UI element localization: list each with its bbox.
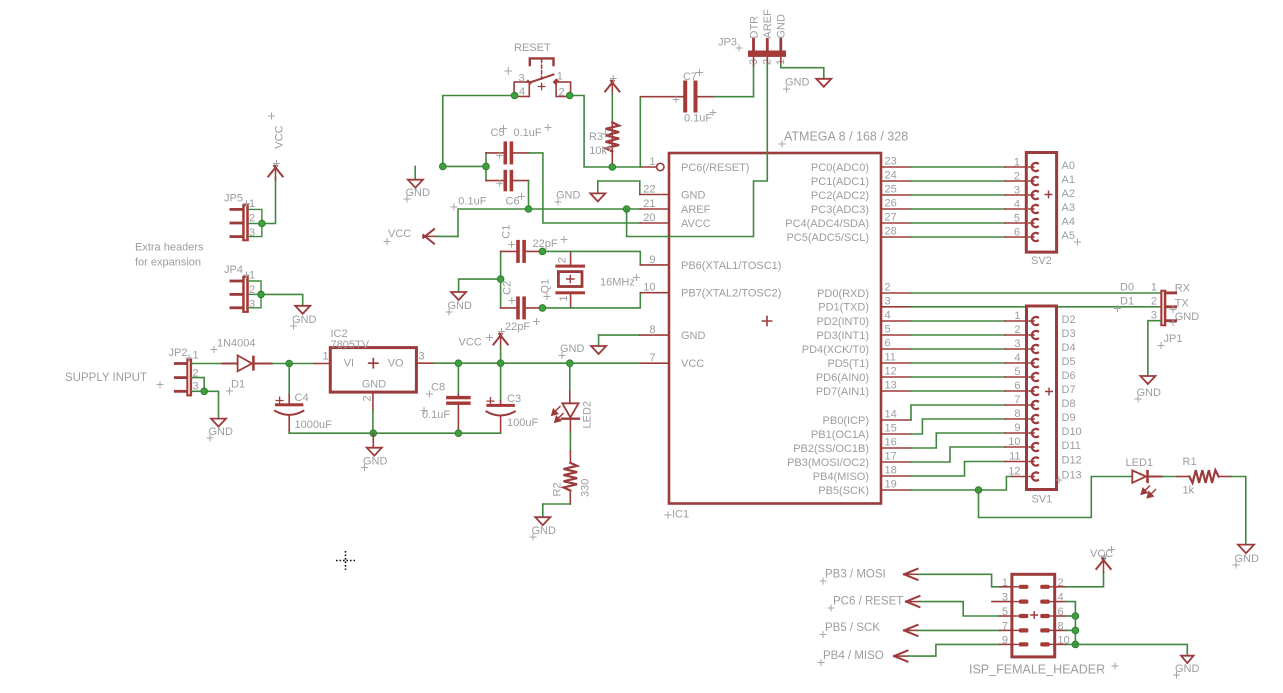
- svg-text:GND: GND: [560, 343, 585, 355]
- svg-text:PB3(MOSI/OC2): PB3(MOSI/OC2): [787, 457, 869, 469]
- svg-text:R1: R1: [1183, 456, 1197, 468]
- svg-text:Q1: Q1: [540, 279, 552, 294]
- svg-text:JP4: JP4: [224, 264, 243, 276]
- svg-text:6: 6: [1014, 227, 1020, 239]
- svg-text:3: 3: [1151, 310, 1157, 322]
- svg-text:PB4 / MISO: PB4 / MISO: [823, 650, 884, 662]
- svg-text:16: 16: [885, 437, 897, 449]
- svg-text:LED1: LED1: [1126, 457, 1154, 469]
- svg-text:25: 25: [885, 184, 897, 196]
- svg-text:VCC: VCC: [388, 228, 411, 240]
- svg-text:11: 11: [885, 352, 896, 364]
- svg-text:PC3(ADC3): PC3(ADC3): [811, 204, 869, 216]
- svg-text:20: 20: [643, 212, 655, 224]
- svg-text:PB4(MISO): PB4(MISO): [813, 471, 869, 483]
- svg-text:GND: GND: [776, 14, 788, 39]
- svg-text:14: 14: [885, 409, 897, 421]
- svg-text:SUPPLY INPUT: SUPPLY INPUT: [65, 372, 147, 384]
- svg-text:12: 12: [1008, 466, 1020, 478]
- svg-text:C6: C6: [506, 196, 520, 208]
- svg-text:ATMEGA 8 / 168 / 328: ATMEGA 8 / 168 / 328: [784, 130, 908, 144]
- svg-text:15: 15: [885, 423, 897, 435]
- svg-text:26: 26: [885, 198, 897, 210]
- svg-text:R2: R2: [552, 482, 564, 496]
- svg-text:SV2: SV2: [1031, 255, 1052, 267]
- svg-text:PB0(ICP): PB0(ICP): [823, 415, 869, 427]
- svg-text:C7: C7: [683, 71, 697, 83]
- svg-text:SV1: SV1: [1032, 494, 1053, 506]
- svg-text:6: 6: [1014, 380, 1020, 392]
- svg-text:1: 1: [1151, 282, 1157, 294]
- svg-text:A5: A5: [1062, 230, 1075, 242]
- svg-text:VCC: VCC: [459, 337, 482, 349]
- svg-text:GND: GND: [448, 300, 473, 312]
- svg-text:GND: GND: [292, 314, 317, 326]
- svg-text:PD5(T1): PD5(T1): [827, 358, 869, 370]
- svg-text:1: 1: [558, 295, 570, 301]
- svg-text:17: 17: [885, 451, 897, 463]
- svg-text:5: 5: [885, 324, 891, 336]
- svg-text:JP2: JP2: [169, 347, 188, 359]
- svg-text:PB5(SCK): PB5(SCK): [818, 485, 869, 497]
- svg-text:VO: VO: [388, 358, 404, 370]
- svg-text:A4: A4: [1062, 216, 1075, 228]
- svg-text:1000uF: 1000uF: [295, 419, 333, 431]
- svg-text:D1: D1: [231, 379, 245, 391]
- svg-text:22pF: 22pF: [533, 238, 558, 250]
- svg-text:GND: GND: [1235, 553, 1260, 565]
- svg-text:16MHz: 16MHz: [600, 277, 635, 289]
- svg-text:PC6(/RESET): PC6(/RESET): [681, 162, 749, 174]
- svg-text:PD1(TXD): PD1(TXD): [818, 302, 869, 314]
- svg-text:ISP_FEMALE_HEADER: ISP_FEMALE_HEADER: [969, 663, 1105, 677]
- svg-text:LED2: LED2: [582, 401, 594, 429]
- svg-text:PB1(OC1A): PB1(OC1A): [811, 429, 869, 441]
- svg-text:21: 21: [643, 198, 655, 210]
- svg-text:0.1uF: 0.1uF: [514, 127, 542, 139]
- svg-text:PC2(ADC2): PC2(ADC2): [811, 190, 869, 202]
- svg-text:3: 3: [519, 73, 525, 85]
- svg-text:28: 28: [885, 226, 897, 238]
- svg-text:6: 6: [885, 338, 891, 350]
- svg-text:D5: D5: [1062, 356, 1076, 368]
- svg-text:2: 2: [556, 257, 568, 263]
- svg-text:24: 24: [885, 170, 897, 182]
- svg-text:GND: GND: [1175, 311, 1200, 323]
- svg-text:D1: D1: [1120, 296, 1134, 308]
- svg-text:23: 23: [885, 156, 897, 168]
- svg-text:GND: GND: [362, 379, 387, 391]
- svg-text:PD7(AIN1): PD7(AIN1): [816, 386, 869, 398]
- svg-text:4: 4: [885, 310, 891, 322]
- svg-text:A0: A0: [1062, 160, 1075, 172]
- svg-text:2: 2: [362, 395, 374, 401]
- svg-text:8: 8: [649, 324, 655, 336]
- svg-text:2: 2: [1151, 296, 1157, 308]
- svg-text:PB7(XTAL2/TOSC2): PB7(XTAL2/TOSC2): [681, 288, 781, 300]
- svg-text:1: 1: [557, 71, 563, 83]
- svg-text:7805TV: 7805TV: [331, 339, 370, 351]
- svg-text:PB3 / MOSI: PB3 / MOSI: [825, 569, 886, 581]
- svg-text:C8: C8: [431, 382, 445, 394]
- svg-text:1N4004: 1N4004: [217, 338, 256, 350]
- svg-text:19: 19: [885, 479, 897, 491]
- svg-text:D3: D3: [1062, 328, 1076, 340]
- svg-text:2: 2: [885, 282, 891, 294]
- svg-text:GND: GND: [406, 187, 431, 199]
- svg-text:JP1: JP1: [1164, 333, 1183, 345]
- svg-text:3: 3: [885, 296, 891, 308]
- svg-text:3: 3: [1014, 338, 1020, 350]
- svg-text:PC0(ADC0): PC0(ADC0): [811, 162, 869, 174]
- svg-text:JP5: JP5: [224, 193, 243, 205]
- svg-text:D2: D2: [1062, 314, 1076, 326]
- svg-text:330: 330: [580, 479, 592, 497]
- svg-text:AVCC: AVCC: [681, 218, 711, 230]
- svg-text:GND: GND: [363, 456, 388, 468]
- svg-text:0.1uF: 0.1uF: [684, 113, 712, 125]
- svg-text:AREF: AREF: [762, 9, 774, 39]
- svg-text:VI: VI: [344, 358, 354, 370]
- svg-text:A3: A3: [1062, 202, 1075, 214]
- svg-text:10: 10: [643, 282, 655, 294]
- svg-text:1: 1: [193, 350, 199, 362]
- svg-text:12: 12: [885, 366, 897, 378]
- svg-text:Extra headers: Extra headers: [135, 242, 204, 254]
- svg-text:C3: C3: [507, 393, 521, 405]
- svg-text:for expansion: for expansion: [135, 257, 201, 269]
- svg-text:TX: TX: [1175, 298, 1190, 310]
- svg-text:3: 3: [419, 351, 425, 363]
- svg-text:1: 1: [323, 350, 329, 362]
- svg-text:AREF: AREF: [681, 204, 711, 216]
- svg-text:PD3(INT1): PD3(INT1): [816, 330, 869, 342]
- svg-text:RESET: RESET: [514, 42, 551, 54]
- svg-text:D12: D12: [1062, 455, 1082, 467]
- svg-text:D7: D7: [1062, 384, 1076, 396]
- svg-text:10k: 10k: [589, 145, 607, 157]
- svg-text:3: 3: [249, 299, 255, 311]
- svg-text:C4: C4: [295, 392, 309, 404]
- svg-text:GND: GND: [785, 77, 810, 89]
- svg-text:A2: A2: [1062, 188, 1075, 200]
- svg-text:22pF: 22pF: [505, 321, 530, 333]
- svg-text:VCC: VCC: [681, 358, 704, 370]
- svg-text:D10: D10: [1062, 426, 1082, 438]
- svg-text:VCC: VCC: [273, 125, 285, 148]
- svg-text:GND: GND: [1137, 387, 1162, 399]
- svg-text:D11: D11: [1062, 440, 1081, 452]
- svg-text:2: 2: [249, 213, 255, 225]
- svg-text:1: 1: [1014, 157, 1020, 169]
- svg-text:10: 10: [1008, 436, 1020, 448]
- svg-text:5: 5: [1014, 366, 1020, 378]
- svg-text:PB2(SS/OC1B): PB2(SS/OC1B): [793, 443, 869, 455]
- svg-text:D8: D8: [1062, 398, 1076, 410]
- svg-text:0.1uF: 0.1uF: [458, 196, 486, 208]
- svg-text:2: 2: [1014, 324, 1020, 336]
- svg-text:PD0(RXD): PD0(RXD): [817, 288, 869, 300]
- svg-text:GND: GND: [1175, 663, 1200, 675]
- svg-text:GND: GND: [532, 525, 557, 537]
- svg-text:11: 11: [1009, 451, 1020, 463]
- svg-text:PD4(XCK/T0): PD4(XCK/T0): [802, 344, 869, 356]
- svg-text:PD2(INT0): PD2(INT0): [816, 316, 869, 328]
- svg-text:1: 1: [1014, 310, 1020, 322]
- svg-text:4: 4: [1014, 199, 1020, 211]
- svg-text:RX: RX: [1175, 283, 1191, 295]
- svg-text:8: 8: [1014, 408, 1020, 420]
- svg-text:PC1(ADC1): PC1(ADC1): [811, 176, 869, 188]
- svg-text:GND: GND: [209, 426, 234, 438]
- svg-text:13: 13: [885, 380, 897, 392]
- svg-text:PC5(ADC5/SCL): PC5(ADC5/SCL): [786, 232, 869, 244]
- svg-text:9: 9: [649, 254, 655, 266]
- svg-text:PC6 / RESET: PC6 / RESET: [833, 596, 903, 608]
- svg-text:100uF: 100uF: [507, 417, 538, 429]
- svg-text:D0: D0: [1120, 282, 1134, 294]
- svg-text:4: 4: [519, 86, 525, 98]
- svg-text:9: 9: [1014, 422, 1020, 434]
- svg-text:22: 22: [643, 184, 655, 196]
- svg-text:DTR: DTR: [748, 16, 760, 39]
- svg-text:IC1: IC1: [672, 509, 689, 521]
- svg-text:1k: 1k: [1183, 485, 1195, 497]
- svg-text:2: 2: [1014, 171, 1020, 183]
- svg-text:GND: GND: [681, 330, 706, 342]
- svg-text:D6: D6: [1062, 370, 1076, 382]
- svg-text:27: 27: [885, 212, 897, 224]
- svg-text:PB6(XTAL1/TOSC1): PB6(XTAL1/TOSC1): [681, 260, 781, 272]
- svg-text:R3: R3: [589, 131, 603, 143]
- svg-text:4: 4: [1014, 352, 1020, 364]
- svg-text:GND: GND: [556, 190, 581, 202]
- svg-text:PB5 / SCK: PB5 / SCK: [825, 622, 880, 634]
- svg-text:C2: C2: [501, 281, 513, 295]
- svg-text:IC2: IC2: [331, 328, 348, 340]
- svg-text:18: 18: [885, 465, 897, 477]
- svg-text:7: 7: [1014, 394, 1020, 406]
- svg-text:1: 1: [649, 156, 655, 168]
- svg-text:PC4(ADC4/SDA): PC4(ADC4/SDA): [785, 218, 869, 230]
- svg-text:D4: D4: [1062, 342, 1076, 354]
- svg-text:C1: C1: [500, 225, 512, 239]
- svg-text:PD6(AIN0): PD6(AIN0): [816, 372, 869, 384]
- svg-text:5: 5: [1014, 213, 1020, 225]
- svg-text:2: 2: [559, 87, 565, 99]
- svg-text:GND: GND: [681, 189, 706, 201]
- svg-text:D9: D9: [1062, 412, 1076, 424]
- svg-text:3: 3: [1014, 185, 1020, 197]
- svg-text:7: 7: [649, 352, 655, 364]
- svg-text:D13: D13: [1062, 470, 1082, 482]
- svg-text:JP3: JP3: [718, 37, 737, 49]
- svg-text:A1: A1: [1062, 174, 1075, 186]
